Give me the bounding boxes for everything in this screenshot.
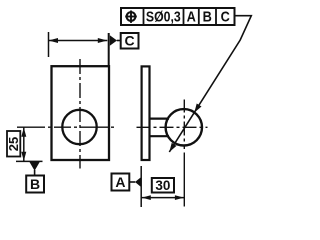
svg-text:C: C xyxy=(221,8,230,25)
svg-text:B: B xyxy=(30,176,40,192)
svg-text:B: B xyxy=(203,8,212,25)
datum B box xyxy=(26,176,44,193)
arrowhead left (30 dimension) xyxy=(142,195,151,200)
hole circle (front view) xyxy=(62,110,96,144)
arrowhead up (25 dimension) xyxy=(21,128,26,137)
horizontal centerline (side view) xyxy=(137,126,208,128)
vertical centerline (front view) xyxy=(79,59,81,169)
position symbol circle xyxy=(127,12,136,21)
datum C stem xyxy=(117,40,121,42)
datum B triangle xyxy=(30,162,40,171)
extension line bottom (25 dimension / datum B) xyxy=(16,160,43,162)
datum B stem xyxy=(34,170,36,176)
feature control frame outline xyxy=(121,8,235,25)
feature control frame divider 3 xyxy=(198,8,200,25)
datum C triangle xyxy=(110,35,117,46)
leader line from feature control frame xyxy=(169,16,251,152)
datum A box xyxy=(112,174,130,191)
feature control frame divider 1 xyxy=(143,8,145,25)
boss stub top line xyxy=(150,117,170,119)
basic dimension box 30 xyxy=(152,178,174,193)
svg-text:30: 30 xyxy=(155,178,170,193)
arrowhead down (25 dimension) xyxy=(21,152,26,161)
arrowhead right (top dimension) xyxy=(98,38,108,43)
svg-text:SØ0,3: SØ0,3 xyxy=(146,8,181,24)
dimension line 25 (vertical) xyxy=(23,127,25,161)
vertical centerline (side view) xyxy=(183,100,185,150)
position symbol cross horizontal xyxy=(125,16,137,18)
datum A triangle xyxy=(135,177,141,187)
svg-text:C: C xyxy=(125,33,135,49)
svg-text:A: A xyxy=(187,8,196,25)
part outline (front view rectangle) xyxy=(52,66,110,160)
boss stub bottom line xyxy=(150,135,170,137)
datum A stem xyxy=(129,181,135,183)
extension line (left, width dimension) xyxy=(48,32,50,57)
side view outline xyxy=(142,66,150,160)
dimension line 30 xyxy=(141,197,184,199)
basic dimension box 25 xyxy=(7,131,20,157)
arrowhead right (30 dimension) xyxy=(175,195,184,200)
sphere circle (side view) xyxy=(166,109,202,145)
extension line (datum A / 30 dimension, left) xyxy=(140,166,142,207)
arrowhead left (top dimension) xyxy=(49,38,59,43)
feature control frame divider 2 xyxy=(183,8,185,25)
datum C box xyxy=(121,33,139,49)
horizontal centerline (front view) xyxy=(17,126,117,128)
leader arrowhead at sphere edge xyxy=(194,104,201,113)
extension line for datum C (right edge extended) xyxy=(108,33,110,66)
dimension line (top width) xyxy=(49,40,108,42)
feature control frame divider 4 xyxy=(215,8,217,25)
leader arrowhead at end xyxy=(169,143,176,152)
svg-text:25: 25 xyxy=(6,137,21,151)
position symbol cross vertical xyxy=(130,11,132,23)
svg-text:A: A xyxy=(115,174,125,190)
